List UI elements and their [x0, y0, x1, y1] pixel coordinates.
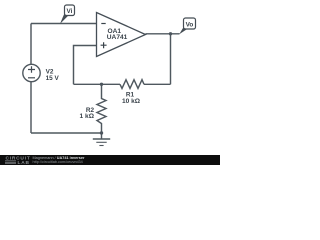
wire bottom rail: V2 to R2 bottom	[31, 132, 102, 134]
svg-text:15 V: 15 V	[46, 75, 60, 82]
wire: V2 - terminal down to bottom rail	[30, 82, 32, 133]
junction dot output node	[169, 32, 172, 35]
op-amp plus symbol	[101, 42, 107, 48]
junction dot ground node	[100, 131, 103, 134]
voltage source V2 circle	[23, 64, 40, 81]
svg-text:Vo: Vo	[186, 21, 194, 28]
ground bar 1	[93, 138, 110, 140]
wire top: Vi node to op-amp inverting input	[31, 23, 97, 25]
ground stub	[101, 133, 103, 139]
wire output: op-amp tip to Vo stub	[146, 33, 180, 35]
node flag Vo box	[184, 18, 196, 29]
junction dot R2 top node	[100, 83, 103, 86]
wire: op-amp + input left then down	[74, 46, 97, 85]
svg-text:http://circuitlab.com/ceuvnd34: http://circuitlab.com/ceuvnd34	[33, 160, 83, 164]
node flag Vi box	[65, 5, 75, 16]
wire: R1 right lead to feedback corner	[144, 83, 171, 85]
op-amp minus symbol	[101, 23, 105, 25]
svg-text:Vi: Vi	[67, 8, 73, 15]
resistor R2 1k zigzag vertical	[97, 84, 106, 133]
node flag Vo tail	[179, 27, 188, 35]
V2 minus sign	[28, 77, 35, 79]
CircuitLab logo bars	[5, 161, 16, 164]
wire mid: corner to R1 left lead	[74, 83, 121, 85]
wire right vertical: feedback up to output node	[170, 34, 172, 85]
op-amp U1 triangle	[97, 13, 146, 57]
resistor R1 10k zigzag	[120, 80, 144, 89]
svg-text:10 kΩ: 10 kΩ	[122, 98, 141, 105]
ground bar 2	[96, 141, 106, 143]
wire left vertical: top node down to V2 + terminal	[30, 24, 32, 65]
svg-text:LAB: LAB	[18, 160, 30, 165]
svg-text:UA741: UA741	[107, 34, 128, 41]
node flag Vi tail	[60, 14, 69, 24]
footer watermark bar	[0, 155, 220, 165]
ground bar 3	[99, 145, 103, 147]
svg-text:1 kΩ: 1 kΩ	[80, 113, 95, 120]
V2 plus sign	[28, 66, 35, 73]
